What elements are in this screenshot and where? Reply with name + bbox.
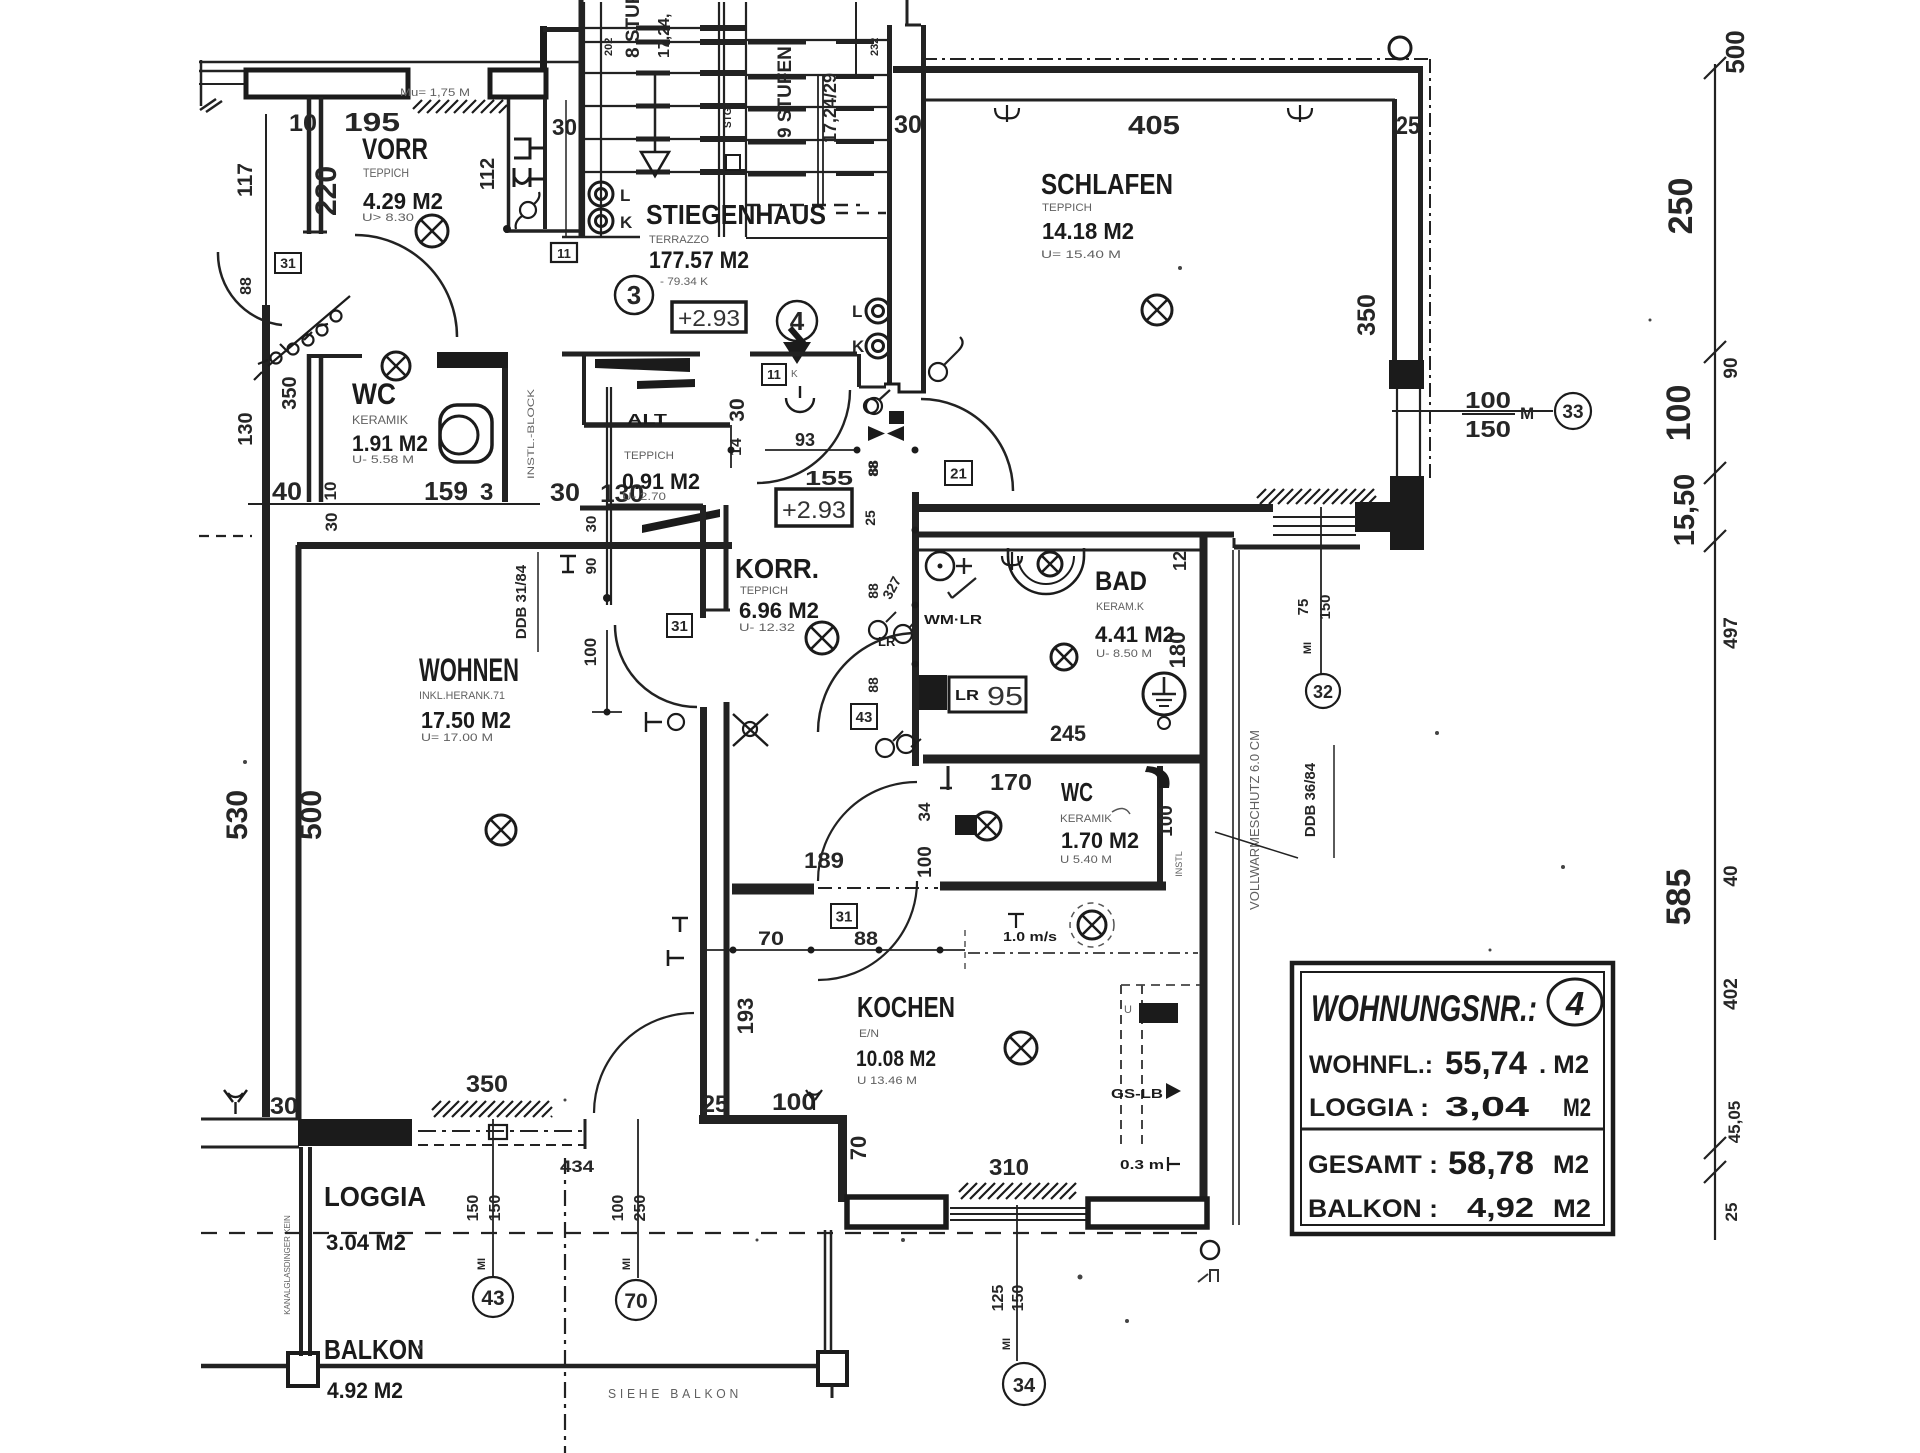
svg-text:93: 93: [795, 430, 815, 450]
svg-text:17.50 M2: 17.50 M2: [421, 707, 511, 733]
svg-text:180: 180: [1165, 632, 1190, 669]
svg-text:- 79.34 K: - 79.34 K: [660, 276, 709, 288]
svg-text:250: 250: [1662, 178, 1700, 235]
svg-text:1.0 m/s: 1.0 m/s: [1003, 929, 1057, 944]
svg-text:88: 88: [865, 583, 881, 599]
svg-text:3.04 M2: 3.04 M2: [326, 1230, 406, 1255]
svg-text:500: 500: [1720, 30, 1750, 73]
svg-text:. M2: . M2: [1539, 1051, 1589, 1079]
svg-text:150: 150: [487, 1195, 504, 1222]
svg-text:KERAM.K: KERAM.K: [1096, 601, 1145, 613]
svg-text:MI: MI: [621, 1258, 633, 1270]
svg-text:70: 70: [758, 929, 784, 950]
svg-text:530: 530: [221, 790, 254, 840]
svg-text:KERAMIK: KERAMIK: [352, 413, 408, 427]
svg-text:STIEGENHAUS: STIEGENHAUS: [646, 199, 826, 230]
svg-text:BALKON :: BALKON :: [1308, 1195, 1438, 1223]
svg-text:202: 202: [603, 38, 615, 56]
svg-text:LOGGIA: LOGGIA: [324, 1181, 426, 1212]
svg-text:100: 100: [1660, 385, 1698, 442]
svg-text:350: 350: [466, 1071, 508, 1098]
svg-text:31: 31: [836, 908, 853, 925]
svg-text:12: 12: [1170, 551, 1190, 571]
svg-text:LR: LR: [955, 687, 979, 704]
svg-text:LOGGIA :: LOGGIA :: [1309, 1094, 1429, 1122]
svg-text:95: 95: [987, 681, 1023, 711]
svg-text:3: 3: [480, 479, 493, 506]
svg-text:100: 100: [915, 846, 936, 878]
svg-text:14.18 M2: 14.18 M2: [1042, 218, 1134, 244]
svg-text:32: 32: [1313, 682, 1333, 702]
svg-text:BALKON: BALKON: [324, 1334, 424, 1365]
svg-text:75: 75: [1295, 599, 1312, 616]
svg-text:402: 402: [1721, 978, 1742, 1010]
svg-text:310: 310: [989, 1154, 1029, 1180]
svg-text:ALT: ALT: [627, 411, 667, 428]
svg-text:M2: M2: [1553, 1151, 1589, 1179]
svg-text:VORR: VORR: [362, 133, 428, 166]
svg-text:U 5.40 M: U 5.40 M: [1060, 854, 1112, 866]
svg-text:9 STUFEN: 9 STUFEN: [775, 46, 796, 138]
svg-text:34: 34: [1013, 1375, 1036, 1397]
svg-text:+2.93: +2.93: [782, 497, 846, 524]
svg-text:0.3 m: 0.3 m: [1120, 1157, 1164, 1172]
svg-text:350: 350: [279, 376, 301, 409]
svg-text:4.29 M2: 4.29 M2: [363, 188, 443, 214]
svg-text:500: 500: [295, 790, 328, 840]
svg-text:159: 159: [424, 476, 468, 506]
svg-text:55,74: 55,74: [1445, 1045, 1527, 1081]
svg-text:88: 88: [865, 677, 881, 693]
svg-text:21: 21: [950, 465, 967, 482]
svg-text:WM·LR: WM·LR: [924, 612, 983, 627]
svg-text:100: 100: [610, 1195, 627, 1222]
svg-text:4: 4: [1565, 985, 1584, 1022]
svg-text:KOCHEN: KOCHEN: [857, 992, 955, 1024]
svg-text:TEPPICH: TEPPICH: [1042, 202, 1092, 214]
svg-text:405: 405: [1128, 110, 1180, 140]
svg-text:30: 30: [894, 111, 922, 139]
svg-text:25: 25: [1396, 112, 1420, 140]
svg-text:4.92 M2: 4.92 M2: [327, 1378, 403, 1403]
svg-text:DDB 36/84: DDB 36/84: [1302, 762, 1319, 837]
svg-text:45,05: 45,05: [1725, 1101, 1744, 1144]
svg-text:L: L: [620, 186, 630, 205]
svg-text:4.41 M2: 4.41 M2: [1095, 622, 1175, 647]
svg-text:E/N: E/N: [859, 1028, 879, 1040]
svg-text:TERRAZZO: TERRAZZO: [649, 234, 709, 246]
svg-text:88: 88: [854, 929, 878, 950]
svg-text:M2: M2: [1563, 1094, 1591, 1122]
svg-text:150: 150: [465, 1195, 482, 1222]
svg-text:3: 3: [627, 280, 641, 310]
svg-text:43: 43: [481, 1287, 504, 1310]
svg-text:117: 117: [234, 163, 257, 197]
svg-text:U- 12.32: U- 12.32: [739, 622, 795, 634]
svg-text:17,24,: 17,24,: [656, 14, 673, 58]
svg-text:VOLLWARMESCHUTZ 6.0 CM: VOLLWARMESCHUTZ 6.0 CM: [1247, 730, 1262, 910]
svg-text:125: 125: [990, 1285, 1007, 1312]
svg-text:8 STUFEN: 8 STUFEN: [623, 0, 644, 58]
svg-text:U= 17.00 M: U= 17.00 M: [421, 732, 493, 744]
svg-text:25: 25: [702, 1091, 728, 1118]
svg-text:M: M: [1520, 404, 1534, 423]
svg-text:K: K: [620, 213, 633, 232]
svg-text:10: 10: [321, 482, 340, 501]
svg-text:GESAMT :: GESAMT :: [1308, 1151, 1438, 1179]
svg-text:30: 30: [322, 513, 341, 532]
svg-text:L: L: [852, 302, 862, 321]
svg-text:4,92: 4,92: [1467, 1192, 1534, 1223]
svg-text:170: 170: [990, 769, 1032, 795]
svg-text:6.96 M2: 6.96 M2: [739, 598, 819, 623]
svg-text:31: 31: [671, 618, 688, 635]
svg-text:MI: MI: [1001, 1338, 1013, 1350]
svg-text:585: 585: [1660, 869, 1698, 926]
svg-text:189: 189: [804, 848, 844, 873]
svg-text:MI: MI: [1302, 642, 1314, 654]
svg-text:497: 497: [1721, 617, 1742, 649]
svg-text:K: K: [791, 369, 798, 380]
svg-text:U- 5.58 M: U- 5.58 M: [352, 454, 414, 466]
svg-text:BAD: BAD: [1095, 566, 1147, 596]
svg-text:15,50: 15,50: [1669, 474, 1701, 547]
svg-text:KORR.: KORR.: [735, 553, 819, 584]
svg-text:DDB 31/84: DDB 31/84: [513, 564, 530, 639]
svg-text:U= 15.40 M: U= 15.40 M: [1041, 249, 1121, 261]
svg-text:100: 100: [1465, 387, 1511, 413]
svg-text:90: 90: [583, 558, 600, 575]
svg-text:KANALGLASDINGER KEIN: KANALGLASDINGER KEIN: [283, 1215, 292, 1315]
svg-text:88: 88: [865, 461, 881, 477]
svg-text:U- 8.50 M: U- 8.50 M: [1096, 648, 1152, 660]
svg-text:11: 11: [557, 246, 571, 261]
svg-text:155: 155: [805, 468, 853, 490]
svg-text:245: 245: [1050, 721, 1086, 746]
svg-text:KERAMIK: KERAMIK: [1060, 813, 1113, 825]
svg-text:30: 30: [726, 398, 749, 421]
svg-text:70: 70: [624, 1290, 647, 1313]
svg-text:U- 2.70: U- 2.70: [622, 491, 666, 503]
svg-text:MI: MI: [476, 1258, 488, 1270]
svg-text:U: U: [1124, 1004, 1132, 1016]
svg-text:150: 150: [1465, 416, 1511, 442]
svg-text:Mu= 1,75 M: Mu= 1,75 M: [400, 87, 470, 99]
svg-text:25: 25: [862, 510, 878, 526]
svg-text:112: 112: [477, 158, 499, 190]
svg-text:17,24/29: 17,24/29: [820, 73, 840, 143]
svg-text:SCHLAFEN: SCHLAFEN: [1041, 169, 1173, 201]
svg-text:130: 130: [235, 412, 257, 445]
svg-text:WOHNUNGSNR.:: WOHNUNGSNR.:: [1311, 988, 1537, 1029]
svg-text:TEPPICH: TEPPICH: [624, 450, 674, 462]
svg-text:100: 100: [1156, 805, 1177, 837]
svg-text:1.70 M2: 1.70 M2: [1061, 828, 1139, 853]
svg-text:43: 43: [856, 709, 873, 726]
svg-text:10.08 M2: 10.08 M2: [856, 1046, 936, 1071]
svg-text:30: 30: [270, 1093, 298, 1120]
svg-text:33: 33: [1562, 402, 1583, 423]
svg-text:193: 193: [733, 998, 758, 1035]
svg-text:SIEHE BALKON: SIEHE BALKON: [608, 1386, 742, 1401]
svg-text:232: 232: [869, 38, 881, 56]
svg-text:10: 10: [289, 110, 317, 137]
svg-text:34: 34: [915, 802, 934, 821]
svg-text:M2: M2: [1553, 1195, 1591, 1223]
svg-text:250: 250: [632, 1195, 649, 1222]
svg-text:25: 25: [1722, 1203, 1741, 1222]
svg-text:30: 30: [583, 516, 600, 533]
svg-text:100: 100: [581, 638, 600, 666]
svg-text:30: 30: [552, 114, 577, 140]
svg-text:TEPPICH: TEPPICH: [740, 585, 788, 597]
svg-text:INSTL.-BLOCK: INSTL.-BLOCK: [526, 389, 536, 479]
svg-text:220: 220: [310, 166, 343, 216]
svg-text:1.91 M2: 1.91 M2: [352, 431, 428, 456]
svg-text:U> 8.30: U> 8.30: [362, 212, 414, 224]
svg-text:GS-LB: GS-LB: [1111, 1086, 1163, 1101]
svg-text:70: 70: [846, 1136, 871, 1160]
svg-text:STG: STG: [723, 107, 734, 128]
svg-text:40: 40: [1721, 865, 1742, 886]
svg-text:88: 88: [238, 277, 255, 295]
svg-text:58,78: 58,78: [1448, 1145, 1534, 1181]
svg-text:TEPPICH: TEPPICH: [363, 166, 409, 180]
svg-text:+2.93: +2.93: [678, 305, 740, 331]
svg-text:WOHNFL.:: WOHNFL.:: [1309, 1051, 1433, 1079]
svg-text:INSTL: INSTL: [1174, 851, 1184, 877]
svg-text:150: 150: [1010, 1285, 1027, 1312]
svg-text:40: 40: [272, 478, 302, 506]
svg-text:11: 11: [767, 367, 781, 382]
svg-text:90: 90: [1721, 357, 1742, 378]
svg-text:350: 350: [1353, 294, 1381, 336]
svg-text:INKL.HERANK.71: INKL.HERANK.71: [419, 690, 505, 702]
svg-text:150: 150: [1317, 594, 1334, 619]
svg-text:30: 30: [550, 479, 580, 507]
svg-text:WC: WC: [352, 378, 396, 411]
svg-text:U 13.46 M: U 13.46 M: [857, 1075, 917, 1087]
svg-text:177.57 M2: 177.57 M2: [649, 247, 749, 274]
svg-text:31: 31: [280, 255, 296, 271]
svg-text:WOHNEN: WOHNEN: [419, 652, 519, 688]
svg-text:WC: WC: [1061, 777, 1093, 807]
svg-text:3,04: 3,04: [1445, 1091, 1530, 1122]
